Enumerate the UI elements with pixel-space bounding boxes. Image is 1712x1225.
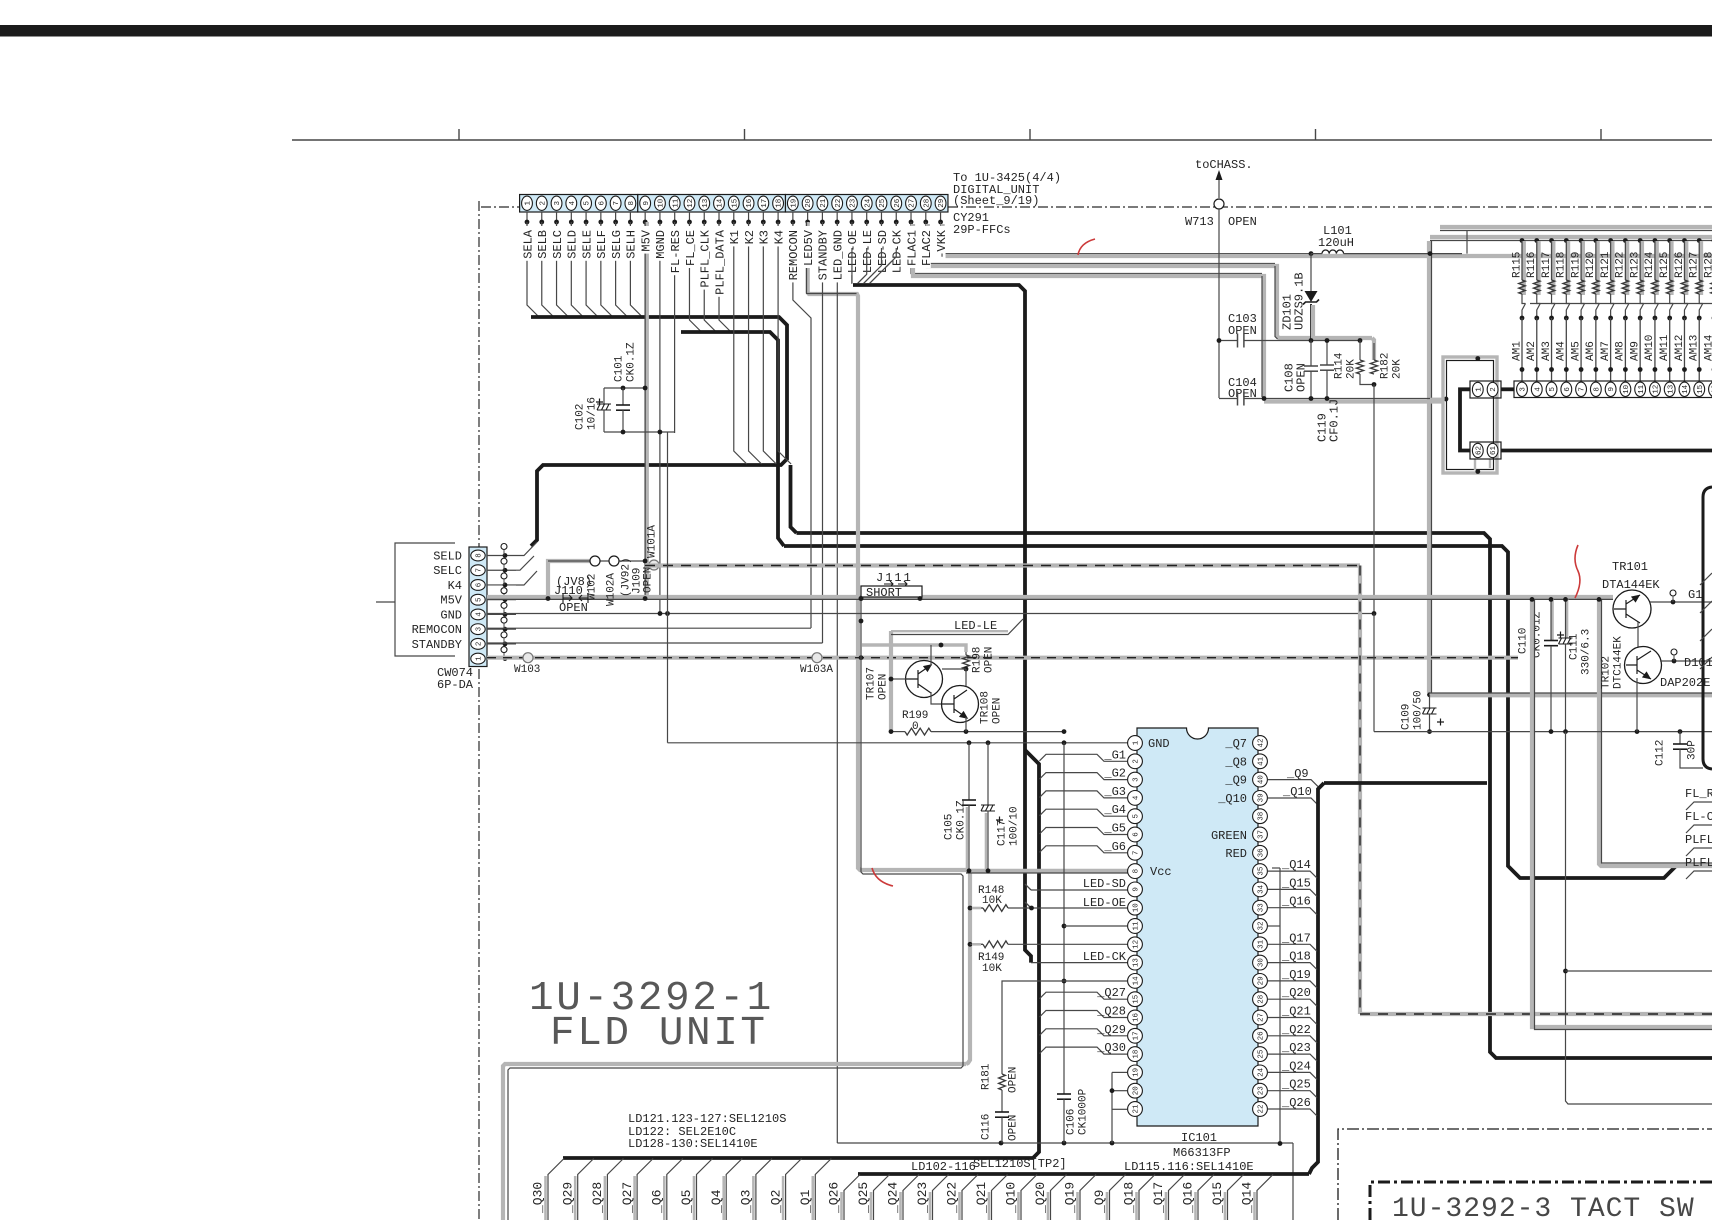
jumper W101A circle gray — [649, 560, 659, 570]
svg-text:RED: RED — [1225, 847, 1247, 861]
gray wire y340 corner down to R182 — [1372, 338, 1374, 360]
gray frame V x970 down — [966, 870, 970, 1064]
svg-text:PLFL: PLFL — [1685, 833, 1712, 847]
svg-text:1: 1 — [476, 656, 484, 661]
svg-text:SELF: SELF — [595, 230, 609, 259]
svg-text:_Q19: _Q19 — [1281, 968, 1311, 982]
wire LED5V pin20 drop (gray) — [808, 222, 858, 866]
connector pin 15 — [1694, 382, 1705, 396]
svg-text:(Sheet_9/19): (Sheet_9/19) — [953, 194, 1039, 208]
connector CY291 pin 22 (LED_GND) — [832, 196, 843, 210]
svg-text:FLAC2: FLAC2 — [920, 230, 934, 266]
gray bus y237 resistor feed — [1430, 235, 1712, 239]
svg-text:R117: R117 — [1541, 252, 1553, 278]
wire stub label _Q28 — [604, 1176, 607, 1220]
thick wire pin1 loop to pin62 — [1460, 389, 1470, 450]
svg-text:7: 7 — [1133, 851, 1141, 856]
wire -VKK gray companion — [943, 224, 1430, 256]
CW074 pin 5 stub with open circle — [487, 599, 516, 601]
CW074 pin 1 stub with open circle — [487, 658, 516, 660]
resistor R199 0 row — [891, 731, 905, 733]
svg-text:FL_CE: FL_CE — [684, 230, 698, 266]
net label M5V — [640, 226, 650, 254]
wire stub label _Q16 — [1194, 1192, 1197, 1220]
ruler tick — [458, 129, 460, 140]
net label FLAC2 — [921, 226, 931, 268]
svg-text:20K: 20K — [1391, 359, 1403, 379]
connector CY291 pin 14 (PLFL_DATA) — [714, 196, 725, 210]
wire node C103 to R114 — [1311, 340, 1360, 342]
thick bus H y783 to K-bus — [1324, 781, 1487, 785]
svg-text:10: 10 — [1623, 384, 1631, 394]
svg-text:28: 28 — [923, 199, 931, 208]
svg-text:AM13: AM13 — [1689, 335, 1701, 361]
svg-text:_Q14: _Q14 — [1281, 858, 1311, 872]
CW074 pin 8 stub with open circle — [487, 555, 516, 557]
svg-text:C111: C111 — [1568, 633, 1580, 660]
svg-text:R126: R126 — [1674, 252, 1686, 278]
wire stub label _Q23 — [929, 1192, 932, 1220]
connector CW074 pin 4 — [471, 609, 485, 620]
net label MGND — [655, 226, 665, 261]
svg-text:J111: J111 — [876, 571, 913, 585]
svg-text:R124: R124 — [1644, 251, 1656, 278]
svg-text:28: 28 — [1258, 995, 1266, 1004]
svg-text:_Q21: _Q21 — [974, 1182, 989, 1214]
svg-text:6: 6 — [1133, 832, 1141, 837]
svg-text:LD128-130:SEL1410E: LD128-130:SEL1410E — [628, 1137, 758, 1151]
svg-text:SELD: SELD — [566, 230, 580, 259]
ruler tick — [1029, 129, 1031, 140]
svg-text:9: 9 — [643, 201, 651, 206]
connector CY291 pin 24 (LED-LE) — [861, 196, 872, 210]
svg-text:_Q16: _Q16 — [1181, 1182, 1196, 1214]
svg-text:14: 14 — [1682, 384, 1690, 394]
svg-text:24: 24 — [864, 198, 872, 208]
svg-text:100/50: 100/50 — [1412, 690, 1424, 730]
wire _Q20 from pin 28 — [1268, 999, 1317, 1006]
svg-text:29P-FFCs: 29P-FFCs — [953, 223, 1011, 237]
wire x667 drop from C network — [667, 432, 669, 743]
svg-text:TR107: TR107 — [865, 667, 877, 700]
resistor R119 column — [1579, 238, 1584, 243]
net label FLAC1 — [906, 226, 916, 268]
connector CY291 pin 16 (K2) — [743, 196, 754, 210]
svg-text:1U-3292-3 TACT SW: 1U-3292-3 TACT SW — [1392, 1194, 1695, 1220]
svg-text:16: 16 — [746, 198, 754, 208]
svg-text:_Q25: _Q25 — [1281, 1078, 1311, 1092]
svg-text:_G4: _G4 — [1103, 803, 1126, 817]
connector CY291 pin 12 (FL_CE) — [684, 196, 695, 210]
svg-text:42: 42 — [1258, 738, 1266, 747]
svg-text:20K: 20K — [1345, 359, 1357, 379]
wire stub label _Q6 — [663, 1176, 666, 1220]
svg-text:_Q17: _Q17 — [1281, 931, 1311, 945]
svg-text:30P: 30P — [1686, 740, 1698, 760]
net label K2 — [744, 226, 754, 246]
svg-text:33: 33 — [1258, 903, 1266, 913]
svg-text:Vcc: Vcc — [1150, 865, 1172, 879]
svg-text:_Q16: _Q16 — [1281, 895, 1311, 909]
svg-text:OPEN: OPEN — [1228, 324, 1257, 338]
connector pin 16 — [1709, 382, 1712, 396]
svg-text:37: 37 — [1258, 830, 1266, 839]
black companion frame inner — [508, 599, 963, 1221]
connector CY291 pin 4 (SELD) — [566, 196, 577, 210]
svg-text:11: 11 — [1638, 384, 1646, 394]
wire stub label _Q21 — [988, 1192, 991, 1220]
svg-text:23: 23 — [850, 198, 858, 208]
svg-text:6: 6 — [1564, 387, 1572, 392]
svg-text:20: 20 — [805, 198, 813, 208]
wire _Q19 from pin 29 — [1268, 981, 1317, 988]
svg-text:_Q10: _Q10 — [1004, 1182, 1019, 1214]
gray jumper frame around pins — [1443, 357, 1497, 473]
thick bus V x1315 right of IC — [1309, 783, 1324, 1174]
wire GND row y613 — [487, 613, 1374, 615]
svg-text:AM12: AM12 — [1674, 335, 1686, 361]
svg-text:AM6: AM6 — [1585, 341, 1597, 361]
wire MGND pin10 drop — [659, 222, 661, 613]
svg-text:7: 7 — [1579, 387, 1587, 392]
connector pin 9 — [1605, 382, 1616, 396]
svg-text:OPEN: OPEN — [1228, 215, 1257, 229]
dashed gray net W101A bottom H y1014 — [1360, 1012, 1712, 1016]
svg-text:21: 21 — [820, 198, 828, 208]
red annotation arc 1 — [1078, 239, 1095, 255]
svg-text:_Q23: _Q23 — [915, 1182, 930, 1214]
wire AM6 column with dots — [1593, 316, 1598, 321]
svg-text:_G5: _G5 — [1103, 822, 1126, 836]
black jumper frame inner — [1447, 361, 1494, 470]
svg-text:3: 3 — [1133, 777, 1141, 782]
svg-text:_Q5: _Q5 — [679, 1190, 694, 1214]
wire stub label _Q17 — [1165, 1192, 1168, 1220]
wire stub label _Q27 — [633, 1176, 636, 1220]
wire LED-CK pin13 row — [1031, 962, 1131, 964]
connector CW074 pin 5 — [471, 594, 485, 605]
svg-text:120uH: 120uH — [1318, 236, 1354, 250]
connector CY291 strip box pins 1-8 — [520, 195, 638, 213]
thick wire pin2 to pin3 box — [1501, 387, 1514, 391]
svg-text:AM9: AM9 — [1629, 341, 1641, 361]
wire K1-K4 drops to bus — [734, 222, 747, 464]
svg-text:9: 9 — [1133, 887, 1141, 892]
svg-text:15: 15 — [1133, 994, 1141, 1004]
wire AM4 column with dots — [1564, 316, 1569, 321]
jumper circle W103 — [523, 653, 533, 663]
svg-text:39: 39 — [1258, 793, 1266, 802]
bus K-group / H533 long run to right side — [797, 533, 1712, 1058]
svg-text:M5V: M5V — [639, 229, 653, 251]
svg-text:_Q21: _Q21 — [1281, 1005, 1311, 1019]
bus jog to V1039 down to bottom bus1 — [563, 750, 1039, 1158]
svg-text:LD102-116: LD102-116 — [911, 1160, 976, 1174]
connector pin 1 — [1472, 382, 1483, 396]
svg-text:11: 11 — [672, 198, 680, 208]
connector CY291 pin 21 (STANDBY) — [817, 196, 828, 210]
svg-text:K4: K4 — [448, 579, 462, 593]
resistor R123 column — [1638, 238, 1643, 243]
svg-text:_Q10: _Q10 — [1282, 785, 1312, 799]
wire C101/C102 bottom node — [604, 431, 675, 433]
svg-text:G1: G1 — [1688, 588, 1702, 602]
net label FL-RES — [670, 226, 680, 275]
transistor TR108 OPEN — [942, 686, 979, 723]
svg-text:SELD: SELD — [433, 550, 462, 564]
connector CY291 pin 5 (SELE) — [581, 196, 592, 210]
transistor TR101 — [1613, 590, 1651, 628]
ruler tick — [1315, 129, 1317, 140]
svg-text:K2: K2 — [743, 230, 757, 244]
svg-text:18: 18 — [776, 199, 784, 208]
resistor R181 OPEN vertical — [1001, 1066, 1003, 1074]
wire STANDBY row y643 — [487, 642, 823, 644]
jumper pin legs gray stubs — [1474, 459, 1476, 470]
connector pin 4 — [1531, 382, 1542, 396]
CW074 pin 6 stub with open circle — [487, 584, 516, 586]
wire FL-RES pin11 drop — [674, 222, 676, 433]
wire REMOCON row y628 — [487, 627, 811, 629]
wire LED-OE..LED-CK group drops — [851, 222, 853, 284]
svg-text:_Q28: _Q28 — [590, 1182, 605, 1214]
svg-text:FL_R: FL_R — [1685, 787, 1712, 801]
svg-text:330/6.3: 330/6.3 — [1580, 629, 1592, 675]
capacitor C112 30P — [1679, 732, 1681, 744]
svg-text:AM3: AM3 — [1541, 341, 1553, 361]
svg-text:19: 19 — [1133, 1068, 1141, 1077]
svg-text:7: 7 — [613, 201, 621, 206]
connector pin 14 — [1679, 382, 1690, 396]
resistor R117 column — [1549, 238, 1554, 243]
svg-text:2: 2 — [476, 642, 484, 647]
CW074 pin 2 stub with open circle — [487, 643, 516, 645]
connector CW074 pin 7 — [471, 565, 485, 576]
connector CW074 pin 2 — [471, 638, 485, 649]
svg-text:PLFL_DATA: PLFL_DATA — [713, 229, 727, 295]
svg-text:CK0.1Z: CK0.1Z — [625, 342, 637, 382]
wire _Q17 from pin 31 — [1268, 944, 1317, 951]
connector pin 62 — [1472, 443, 1483, 457]
connector pin 6 — [1561, 382, 1572, 396]
connector CY291 pin 2 (SELB) — [536, 196, 547, 210]
svg-text:29: 29 — [1258, 976, 1266, 985]
net label -VKK — [936, 226, 946, 261]
svg-text:21: 21 — [1133, 1104, 1141, 1114]
svg-text:R182: R182 — [1379, 353, 1391, 379]
svg-text:8: 8 — [476, 553, 484, 558]
svg-text:R128: R128 — [1703, 252, 1712, 278]
gray companion bottom line y402 — [1264, 399, 1443, 403]
wire TR108 emitter down — [965, 717, 967, 732]
svg-text:SELB: SELB — [536, 230, 550, 259]
svg-text:_Q20: _Q20 — [1281, 986, 1311, 1000]
svg-text:_Q9: _Q9 — [1224, 774, 1247, 788]
wire AM3 column with dots — [1549, 316, 1554, 321]
svg-text:_Q9: _Q9 — [1092, 1190, 1107, 1214]
svg-text:LED5V: LED5V — [802, 229, 816, 266]
svg-text:27: 27 — [1258, 1013, 1266, 1022]
svg-text:W101A: W101A — [646, 525, 658, 558]
connector pin 2 — [1487, 382, 1498, 396]
net label SELA — [522, 226, 532, 261]
svg-text:_Q7: _Q7 — [1224, 737, 1247, 751]
wire gray vertical x1429 to C109 — [1427, 241, 1431, 693]
wire AM2 column with dots — [1534, 316, 1539, 321]
wire _Q23 from pin 25 — [1268, 1054, 1317, 1061]
svg-text:R198: R198 — [971, 647, 983, 673]
svg-text:UDZS9.1B: UDZS9.1B — [1292, 272, 1306, 330]
ruler tick — [744, 129, 746, 140]
wire REMOCON pin19 drop — [793, 222, 811, 628]
jumper J110 arrows — [563, 593, 588, 603]
svg-text:IC101: IC101 — [1181, 1131, 1217, 1145]
capacitor C106 CK1000P — [1063, 743, 1065, 1094]
svg-text:SELG: SELG — [610, 230, 624, 259]
resistor R182 20K — [1373, 343, 1375, 360]
svg-text:2: 2 — [539, 201, 547, 206]
svg-text:SHORT: SHORT — [866, 586, 902, 600]
connector CY291 pin 26 (LED-CK) — [891, 196, 902, 210]
svg-text:SELC: SELC — [551, 230, 565, 259]
resistor R126 column — [1682, 238, 1687, 243]
connector CY291 pin 20 (LED5V) — [802, 196, 813, 210]
connector CY291 pin 8 (SELH) — [625, 196, 636, 210]
CW074 pin 7 stub with open circle — [487, 569, 516, 571]
svg-text:toCHASS.: toCHASS. — [1195, 158, 1253, 172]
svg-text:_Q27: _Q27 — [1096, 986, 1126, 1000]
bus bottom 2 thick — [858, 1172, 1309, 1176]
svg-text:17: 17 — [761, 199, 769, 208]
svg-text:12: 12 — [687, 199, 695, 208]
svg-text:14: 14 — [1133, 976, 1141, 986]
resistor R149 10K — [968, 942, 973, 947]
TACT SW unit dash-dot border — [1338, 1129, 1712, 1220]
svg-text:OPEN: OPEN — [877, 674, 889, 700]
svg-text:W102: W102 — [586, 574, 598, 600]
wire W102 link line — [548, 560, 645, 562]
wire _Q14 from pin 35 — [1268, 871, 1317, 878]
svg-text:LED-LE: LED-LE — [861, 230, 875, 273]
connector pin 8 — [1590, 382, 1601, 396]
svg-text:R114: R114 — [1333, 352, 1345, 379]
svg-text:D101: D101 — [1684, 656, 1712, 670]
capacitor C111 330/6.3 electrolytic — [1566, 599, 1569, 638]
net label K1 — [729, 226, 739, 246]
svg-text:1: 1 — [1475, 387, 1483, 392]
svg-text:K4: K4 — [772, 230, 786, 244]
gray box TR107 area left leg — [889, 631, 893, 732]
thick wire pin61 run right — [1501, 449, 1712, 453]
svg-text:_Q20: _Q20 — [1033, 1182, 1048, 1214]
net label SELE — [581, 226, 591, 261]
svg-text:CF0.1J: CF0.1J — [1327, 399, 1341, 442]
connector CY291 pin 17 (K3) — [758, 196, 769, 210]
connector CY291 strip box pins 19-29 — [785, 195, 948, 213]
svg-text:5: 5 — [584, 201, 592, 206]
svg-text:R119: R119 — [1570, 252, 1582, 278]
connector pin 7 — [1576, 382, 1587, 396]
wire R182 drop to GND row — [1373, 385, 1375, 614]
gray stub y645 — [862, 645, 966, 652]
svg-text:5: 5 — [1133, 813, 1141, 818]
svg-text:25: 25 — [879, 198, 887, 208]
connector CY291 pin 23 (LED-OE) — [847, 196, 858, 210]
svg-text:13: 13 — [1133, 958, 1141, 968]
connector CY291 pin 28 (FLAC2) — [920, 196, 931, 210]
connector pin 13 — [1664, 382, 1675, 396]
resistor R114 20K — [1359, 341, 1361, 361]
svg-text:29: 29 — [938, 199, 946, 208]
wire stub label _Q26 — [840, 1192, 843, 1220]
svg-text:10/16: 10/16 — [586, 397, 598, 430]
wire _Q18 from pin 30 — [1268, 963, 1317, 970]
svg-text:6: 6 — [598, 201, 606, 206]
connector CY291 pin 27 (FLAC1) — [906, 196, 917, 210]
unit border dash-dot top right of connector — [948, 206, 1712, 208]
svg-text:AM11: AM11 — [1659, 334, 1671, 361]
bus SEL-group lower segment to H533 — [791, 465, 797, 533]
wire stub label _Q20 — [1047, 1192, 1050, 1220]
connector pin 10 — [1620, 382, 1631, 396]
connector CY291 pin 13 (PLFL_CLK) — [699, 196, 710, 210]
svg-text:LED-OE: LED-OE — [1083, 896, 1126, 910]
gray horizontal jumper feed y399 — [1430, 398, 1446, 401]
svg-text:100/10: 100/10 — [1008, 806, 1020, 846]
net label REMOCON — [788, 226, 798, 282]
svg-text:5: 5 — [1549, 387, 1557, 392]
wire _Q30 row — [1040, 1047, 1128, 1054]
svg-text:DTC144EK: DTC144EK — [1612, 636, 1624, 689]
wire stub label _Q10 — [1017, 1192, 1020, 1220]
svg-text:REMOCON: REMOCON — [412, 623, 462, 637]
thin riser x1280 right of IC (pin32/pin35 net down to y1143) — [1279, 868, 1281, 1144]
wire _G1 row — [1040, 754, 1128, 761]
red annotation squiggle 2 — [1575, 545, 1580, 598]
svg-text:8: 8 — [628, 201, 636, 206]
connector CW074 pin 3 — [471, 624, 485, 635]
svg-text:_Q18: _Q18 — [1281, 950, 1311, 964]
svg-text:4: 4 — [1133, 795, 1141, 800]
svg-text:REMOCON: REMOCON — [787, 230, 801, 280]
connector box pins 1-2 — [1470, 381, 1501, 398]
IC U101 M66313FP body — [1137, 728, 1258, 1126]
wire _G2 row — [1040, 773, 1128, 780]
svg-text:STANDBY: STANDBY — [817, 230, 831, 280]
wire stub label _Q24 — [899, 1192, 902, 1220]
connector pin 3 — [1517, 382, 1528, 396]
wire stub label _Q2 — [782, 1176, 785, 1220]
svg-text:14: 14 — [717, 198, 725, 208]
svg-text:STANDBY: STANDBY — [412, 638, 462, 652]
wire FL_CE/PLFL group drops to bus B — [689, 222, 701, 332]
jumper circle W102A — [609, 556, 619, 566]
wire stub label _Q29 — [574, 1176, 577, 1220]
svg-text:TR101: TR101 — [1612, 560, 1648, 574]
top ruler line — [292, 139, 1712, 141]
svg-text:AM2: AM2 — [1526, 341, 1538, 361]
wire TR101 emitter right with G1 stub — [1650, 601, 1712, 603]
wire -VKK pin29 run right to L101 — [941, 222, 1311, 254]
resistor R127 column — [1697, 238, 1702, 243]
svg-text:R123: R123 — [1629, 252, 1641, 278]
resistor R122 column — [1623, 238, 1628, 243]
wire H y731 right run — [1374, 731, 1712, 733]
resistor R124 column — [1653, 238, 1658, 243]
wire TR101-TR102 link — [1637, 622, 1639, 648]
wire fan pins 8-6 to SEL bus — [516, 542, 537, 556]
dashed gray net W101A vertical x1360 — [1358, 566, 1362, 1015]
